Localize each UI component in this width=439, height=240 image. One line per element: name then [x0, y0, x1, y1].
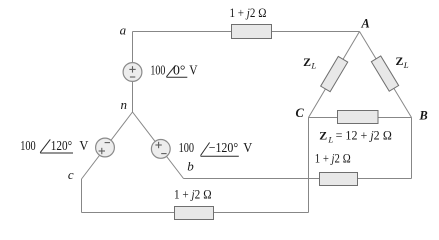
svg-text:C: C: [296, 106, 305, 120]
wire delta A-B: [360, 32, 412, 118]
wire bottom: [82, 212, 309, 214]
impedance ZL A-B: [371, 56, 398, 91]
svg-text:a: a: [120, 23, 127, 38]
resistor line a (1+j2): [232, 25, 272, 39]
source Vbn polarity marks: [155, 142, 166, 154]
svg-text:1 + j2 Ω: 1 + j2 Ω: [174, 187, 212, 201]
svg-text:n: n: [121, 97, 128, 112]
svg-text:b: b: [187, 159, 194, 174]
source Vbn value 100/-120 V: [179, 140, 253, 156]
source Van circle: [123, 63, 142, 82]
svg-text:A: A: [361, 17, 370, 31]
svg-text:V: V: [243, 140, 252, 155]
svg-text:100: 100: [150, 63, 165, 78]
wire n to b diagonal: [133, 112, 184, 179]
svg-text:V: V: [189, 63, 197, 78]
label ZL = 12 + j2: [319, 129, 392, 145]
svg-text:0°: 0°: [173, 63, 185, 78]
source Vcn circle: [96, 138, 115, 157]
wire c vertical: [81, 179, 83, 213]
impedance ZL C-B: [338, 111, 379, 124]
resistor line b (1+j2): [320, 173, 358, 186]
wire B vertical: [411, 118, 413, 179]
svg-text:Z: Z: [319, 129, 327, 143]
wire b horizontal: [184, 178, 412, 180]
wire delta A-C: [309, 32, 360, 118]
source Vbn circle: [151, 140, 170, 159]
svg-text:1 + j2 Ω: 1 + j2 Ω: [230, 6, 267, 20]
source Van value 100/0 V: [150, 63, 197, 78]
svg-text:120°: 120°: [51, 138, 72, 153]
svg-text:B: B: [419, 108, 428, 122]
wire C vertical: [308, 118, 310, 213]
svg-text:1 + j2 Ω: 1 + j2 Ω: [315, 152, 351, 166]
wire delta C-B: [309, 117, 412, 119]
source Van polarity marks: [129, 66, 135, 77]
wire a vertical: [132, 32, 134, 113]
source Vcn polarity marks: [99, 143, 110, 155]
svg-text:V: V: [79, 138, 88, 153]
svg-text:c: c: [68, 167, 74, 182]
label ZL left: [303, 55, 316, 71]
wire a top: [133, 31, 360, 33]
svg-text:L: L: [327, 134, 333, 144]
svg-text:100: 100: [179, 140, 195, 155]
svg-text:Z: Z: [396, 54, 404, 68]
wire n to c diagonal: [82, 112, 133, 179]
resistor line c (1+j2): [175, 207, 214, 220]
svg-text:L: L: [310, 60, 316, 70]
svg-text:= 12 + j2 Ω: = 12 + j2 Ω: [336, 129, 392, 143]
label ZL right: [396, 54, 409, 70]
svg-text:Z: Z: [303, 55, 311, 69]
svg-text:100: 100: [20, 138, 36, 153]
source Vcn value 100/120 V: [20, 138, 88, 153]
impedance ZL A-C: [321, 56, 348, 91]
svg-text:−120°: −120°: [209, 140, 239, 155]
svg-text:L: L: [403, 60, 409, 70]
